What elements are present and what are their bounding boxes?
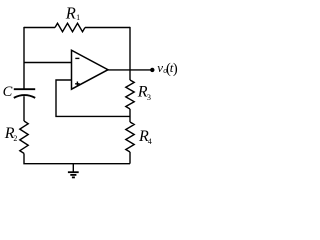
resistor R3	[126, 80, 151, 109]
pin marker inverting input -	[75, 57, 79, 59]
ground	[68, 164, 79, 178]
wire left column lower	[24, 153, 130, 163]
wire top-left segment	[24, 27, 55, 29]
wire right column middle	[129, 109, 131, 122]
resistor R2	[4, 121, 29, 153]
svg-text:1: 1	[76, 13, 80, 22]
label vo(t) output voltage	[157, 60, 178, 77]
wire to inverting input	[24, 62, 72, 64]
wire right column lower	[129, 152, 131, 164]
resistor R4	[126, 122, 152, 152]
wire capacitor to R2	[23, 96, 25, 121]
op-amp U1	[72, 50, 109, 89]
svg-text:3: 3	[147, 92, 151, 102]
wire noninverting feedback	[56, 80, 130, 116]
svg-text:4: 4	[148, 137, 152, 146]
wire output	[107, 69, 153, 71]
svg-text:C: C	[3, 84, 13, 100]
capacitor C	[3, 84, 36, 100]
svg-text:): )	[173, 61, 178, 77]
svg-text:R: R	[65, 4, 76, 23]
pin marker noninverting input +	[75, 82, 80, 87]
wire left column upper	[23, 27, 25, 89]
wire top-right segment	[85, 27, 130, 29]
wire right column upper	[129, 27, 131, 80]
svg-text:2: 2	[13, 134, 17, 143]
node output terminal	[150, 68, 154, 72]
resistor R1	[55, 4, 85, 32]
